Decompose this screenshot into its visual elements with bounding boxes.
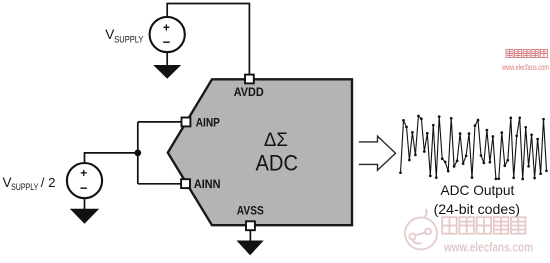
voltage source V1 V_SUPPLY circle	[150, 17, 185, 52]
svg-text:−: −	[163, 35, 171, 50]
watermark bottom-right logo	[405, 209, 437, 250]
watermark bottom-right CJK glyph marks	[442, 217, 525, 234]
wire V2 to ground	[84, 198, 86, 209]
wire V1 to ground	[166, 52, 168, 65]
wire junction vertical	[137, 122, 139, 184]
wire AVSS pin to ground	[249, 230, 251, 241]
svg-text:−: −	[80, 181, 88, 196]
ADC block U1 (delta-sigma ADC) body	[168, 79, 352, 225]
wire junction to AINP pin	[138, 121, 182, 123]
pin AVSS square	[246, 221, 255, 230]
svg-text:AVSS: AVSS	[237, 204, 264, 218]
svg-text:ΔΣ: ΔΣ	[264, 130, 288, 151]
svg-text:+: +	[163, 21, 170, 35]
output arrow	[359, 136, 396, 170]
svg-text:V: V	[105, 27, 114, 42]
ground GND3	[237, 241, 264, 256]
waveform ADC output trace	[401, 116, 547, 179]
svg-text:AINP: AINP	[196, 118, 220, 130]
svg-text:AVDD: AVDD	[234, 85, 264, 99]
svg-text:www.elecfans.com: www.elecfans.com	[443, 241, 533, 255]
pin AVDD square	[245, 75, 254, 84]
waveform sample dots	[399, 115, 548, 181]
node junction dot	[134, 150, 141, 157]
pin AINP square	[182, 118, 191, 127]
pin AINN square	[181, 179, 190, 188]
watermark top-right CJK glyph marks	[506, 50, 547, 58]
svg-text:+: +	[80, 166, 87, 180]
svg-text:/ 2: / 2	[41, 175, 56, 190]
ground GND2	[70, 209, 99, 224]
wire junction to AINN pin	[138, 183, 182, 185]
svg-text:AINN: AINN	[194, 179, 221, 191]
svg-text:www.elecfans.com: www.elecfans.com	[501, 62, 549, 72]
svg-text:SUPPLY: SUPPLY	[114, 33, 144, 44]
wire V_SUPPLY top to AVDD pin	[167, 4, 249, 76]
voltage source V2 V_SUPPLY/2 circle	[67, 163, 102, 198]
svg-text:ADC: ADC	[256, 151, 299, 176]
ground GND1	[153, 65, 181, 79]
svg-text:ADC Output: ADC Output	[441, 183, 515, 198]
svg-text:(24-bit codes): (24-bit codes)	[434, 202, 520, 217]
wire V2 top to junction	[85, 153, 138, 163]
svg-text:SUPPLY: SUPPLY	[11, 181, 39, 192]
